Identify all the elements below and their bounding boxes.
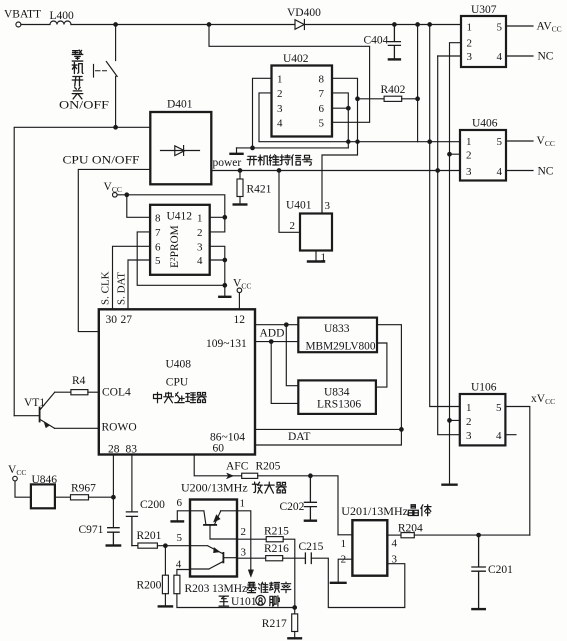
wire U200 pin6 to ground	[177, 511, 190, 520]
svg-text:COL4: COL4	[102, 386, 131, 398]
ground below R217	[288, 637, 301, 639]
wire U307 pin2 ground column	[450, 43, 462, 484]
svg-text:R216: R216	[264, 543, 289, 555]
wire S.CLK U412 pin6 to CPU pin30	[113, 246, 151, 309]
svg-text:U106: U106	[471, 382, 497, 394]
svg-text:3: 3	[241, 546, 247, 558]
node top-D401-branch junction	[207, 23, 211, 27]
node R402 column junction	[416, 23, 420, 27]
resistor R205	[242, 473, 338, 535]
transistor Q1 inside U200	[190, 511, 237, 539]
resistor R204	[387, 533, 530, 538]
wire U402 pin1 loop	[253, 78, 272, 148]
svg-text:E2PROM: E2PROM	[168, 225, 181, 268]
resistor R215	[237, 537, 295, 608]
wire U200 pin4 to R203	[177, 570, 190, 576]
resistor R402	[358, 96, 418, 101]
svg-text:R215: R215	[264, 526, 289, 538]
wire U307 pin3 column to U106 pin3	[438, 56, 460, 435]
svg-text:1: 1	[240, 497, 246, 509]
node ADD lower junction	[269, 340, 273, 344]
terminal Vcc for U846	[13, 476, 31, 497]
wire Vcc to U412 pins 8,1,2	[117, 195, 225, 232]
svg-text:R217: R217	[262, 618, 287, 630]
svg-text:ADD: ADD	[260, 328, 285, 340]
wire power line	[211, 170, 460, 172]
wire U201 pin2 to ground	[338, 559, 352, 581]
svg-text:6: 6	[155, 241, 161, 253]
wire AFC from CPU pin60	[194, 455, 242, 476]
svg-text:ROWO: ROWO	[102, 421, 137, 433]
svg-text:D401: D401	[167, 99, 193, 111]
svg-text:R201: R201	[137, 530, 162, 542]
svg-text:6: 6	[177, 497, 183, 509]
svg-text:4: 4	[392, 538, 398, 550]
node U406 pin2 junction	[448, 152, 452, 156]
node top-switch junction	[114, 23, 118, 27]
node U401 pin2 junction	[277, 169, 281, 173]
arrow 13MHz output	[248, 570, 253, 577]
svg-text:AVCC: AVCC	[537, 21, 562, 34]
label 至	[219, 596, 229, 606]
svg-text:5: 5	[497, 21, 503, 33]
svg-text:1: 1	[466, 136, 472, 148]
svg-text:5: 5	[497, 136, 503, 148]
node pin28 junction	[112, 495, 116, 499]
svg-text:3: 3	[467, 51, 473, 63]
svg-text:C201: C201	[488, 564, 513, 576]
svg-text:30: 30	[106, 314, 118, 326]
svg-text:R402: R402	[381, 84, 406, 96]
svg-text:R203: R203	[185, 583, 210, 595]
svg-text:8: 8	[319, 73, 325, 85]
svg-text:4: 4	[496, 430, 502, 442]
node Vcc branch junction	[125, 193, 129, 197]
U401 pin digits	[290, 200, 331, 264]
svg-text:2: 2	[197, 227, 203, 239]
node U406 line dot	[428, 140, 432, 144]
node C404 junction	[393, 23, 397, 27]
terminal Vcc for CPU pin12	[237, 288, 242, 309]
svg-text:U833: U833	[324, 323, 350, 335]
svg-text:U200/13MHz: U200/13MHz	[181, 481, 248, 495]
svg-text:2: 2	[341, 554, 347, 566]
diode VD400	[295, 20, 304, 30]
svg-text:VD400: VD400	[287, 7, 321, 19]
wire hold-signal ground line	[237, 147, 349, 149]
svg-text:U307: U307	[471, 4, 497, 16]
svg-text:4: 4	[497, 51, 503, 63]
diode block D401	[150, 112, 211, 184]
node U412 pin1 junction	[223, 216, 227, 220]
capacitor C215	[305, 553, 404, 608]
switch S400 整机开关	[94, 25, 118, 128]
svg-text:3: 3	[466, 166, 472, 178]
svg-text:VCC: VCC	[233, 277, 251, 290]
IC U307	[438, 16, 533, 67]
svg-text:DAT: DAT	[288, 431, 310, 443]
IC U106	[450, 394, 530, 535]
svg-text:U401: U401	[286, 200, 312, 212]
svg-text:1: 1	[467, 21, 473, 33]
wire CPU ON/OFF net	[78, 169, 150, 331]
wire U201 pin1	[338, 534, 352, 536]
wire U412 pin7 ground loop	[137, 232, 225, 285]
wire U833 to U834 right loop	[376, 343, 387, 387]
resistor R217	[292, 608, 298, 638]
node C202 junction	[309, 474, 313, 478]
svg-text:CPU: CPU	[166, 376, 189, 388]
CPU U408	[99, 309, 255, 454]
IC U401	[279, 171, 332, 261]
label 晶体	[408, 505, 418, 516]
node pin7 line junction	[223, 284, 227, 288]
label circled 8	[256, 596, 265, 606]
svg-text:R967: R967	[71, 482, 96, 494]
ground below R421	[234, 203, 247, 205]
svg-text:2: 2	[467, 37, 473, 49]
svg-text:2: 2	[466, 416, 472, 428]
svg-text:U408: U408	[166, 358, 192, 370]
svg-text:R4: R4	[72, 375, 86, 387]
U106 pin digits	[466, 402, 502, 442]
node DAT junction	[400, 428, 404, 432]
svg-text:7: 7	[155, 227, 161, 239]
label 整机开关 vertical	[72, 50, 83, 61]
arrow AFC direction	[227, 473, 234, 479]
wire ADD to U834	[271, 325, 298, 404]
svg-text:6: 6	[319, 103, 325, 115]
svg-text:R205: R205	[256, 460, 281, 472]
IC U833 flash memory	[298, 318, 377, 353]
svg-text:1: 1	[341, 538, 347, 550]
node R201 junction	[164, 544, 168, 548]
svg-text:4: 4	[176, 558, 182, 570]
wire CPU pin83 column	[131, 455, 133, 512]
IC U201 crystal	[352, 520, 387, 576]
capacitor C201	[472, 535, 485, 609]
node R402 right junction	[416, 97, 420, 101]
svg-text:27: 27	[121, 314, 133, 326]
chinese glyphs	[72, 50, 431, 606]
svg-text:NC: NC	[538, 165, 554, 177]
svg-text:VT1: VT1	[24, 397, 45, 409]
IC U834 sram	[298, 380, 376, 414]
U402 pin digits	[277, 73, 325, 129]
ground at U201 pin2	[331, 582, 346, 584]
svg-text:L400: L400	[50, 10, 75, 22]
terminal VBATT	[16, 22, 21, 27]
svg-text:2: 2	[277, 88, 283, 100]
resistor R421	[237, 171, 243, 204]
wire S.DAT U412 pin5 to CPU pin27	[128, 260, 150, 309]
svg-text:5: 5	[177, 532, 183, 544]
label 脚	[270, 596, 280, 606]
svg-text:VCC: VCC	[8, 464, 26, 477]
transistor VT1	[14, 392, 54, 428]
node R421 junction	[238, 169, 242, 173]
inductor L400	[21, 21, 71, 24]
svg-text:R421: R421	[247, 184, 272, 196]
svg-text:5: 5	[496, 402, 502, 414]
svg-text:S. DAT: S. DAT	[115, 272, 127, 305]
svg-text:VBATT: VBATT	[4, 9, 41, 21]
U201 pin digits	[341, 538, 398, 566]
svg-text:VCC: VCC	[537, 135, 555, 148]
node pin8-column crossing dot	[356, 140, 359, 143]
svg-text:28: 28	[108, 443, 120, 455]
resistor R200	[162, 546, 168, 606]
svg-text:CPU ON/OFF: CPU ON/OFF	[63, 155, 140, 167]
ground below U401	[308, 260, 324, 262]
svg-text:3: 3	[466, 430, 472, 442]
wire U402 pin2 loop to U406 pin1	[259, 93, 460, 142]
svg-text:8: 8	[155, 212, 161, 224]
svg-text:AFC: AFC	[226, 460, 249, 472]
svg-text:U834: U834	[324, 387, 350, 399]
U406 pin digits	[466, 136, 503, 178]
svg-text:U402: U402	[283, 53, 309, 65]
capacitor C202	[304, 476, 316, 521]
svg-text:1: 1	[197, 212, 203, 224]
wire U412 pins3-4 ground column	[210, 246, 225, 295]
label 基准频率	[247, 582, 257, 592]
svg-text:4: 4	[497, 166, 503, 178]
IC U846	[31, 484, 55, 508]
svg-text:3: 3	[325, 200, 331, 212]
node U412 pin4 junction	[223, 258, 227, 262]
wire U402 pin5 to rail	[209, 25, 370, 123]
IC U200 amplifier	[190, 500, 237, 577]
wire ADD bus upper	[255, 324, 298, 326]
U200 pin digits	[176, 497, 247, 571]
ground of shield column	[443, 484, 457, 486]
transistor Q2 inside U200	[190, 546, 237, 569]
svg-text:U201/13MHz: U201/13MHz	[341, 504, 408, 518]
svg-text:R204: R204	[398, 522, 423, 534]
wire AVcc column to U106 pin1	[430, 25, 460, 407]
resistor R216	[237, 556, 305, 561]
svg-text:3: 3	[392, 554, 398, 566]
svg-text:12: 12	[234, 314, 246, 326]
wire R402 column	[417, 25, 419, 142]
node U106 column junction	[428, 23, 432, 27]
svg-text:5: 5	[155, 255, 161, 267]
svg-text:power: power	[213, 157, 242, 169]
node C201 junction	[477, 533, 481, 537]
svg-text:VCC: VCC	[104, 181, 122, 194]
ground below R200	[159, 605, 172, 607]
svg-text:4: 4	[277, 117, 283, 129]
capacitor C971	[107, 528, 120, 546]
ground at U200 pin6	[172, 520, 183, 522]
svg-text:7: 7	[319, 88, 325, 100]
svg-text:U406: U406	[472, 118, 498, 130]
ground on hold-signal line	[231, 148, 243, 154]
svg-text:3: 3	[277, 103, 283, 115]
node U402 pin1 loop junction	[251, 146, 255, 150]
svg-text:C215: C215	[299, 541, 324, 553]
svg-text:U846: U846	[32, 474, 58, 486]
svg-text:C202: C202	[280, 501, 305, 513]
capacitor C404	[388, 25, 400, 60]
wire ADD bus lower	[255, 341, 298, 343]
resistor R201	[138, 543, 190, 548]
terminal Vcc for U412	[113, 193, 118, 198]
svg-text:R200: R200	[137, 579, 162, 591]
svg-text:ON/OFF: ON/OFF	[59, 99, 109, 111]
svg-text:C971: C971	[79, 524, 104, 536]
svg-text:C404: C404	[364, 35, 389, 47]
label 中央处理器	[154, 392, 162, 403]
svg-text:U412: U412	[167, 210, 193, 222]
svg-text:1: 1	[277, 73, 283, 85]
node U406 pin3 junction	[436, 169, 440, 173]
node U402 pin6 junction	[347, 106, 351, 110]
svg-text:109~131: 109~131	[206, 338, 247, 350]
wire U200 pin1 to 13MHz output	[237, 511, 251, 570]
IC U402	[272, 66, 333, 137]
node switch-bottom junction	[114, 126, 118, 130]
wire ROWO	[55, 427, 99, 429]
svg-text:60: 60	[213, 442, 225, 454]
svg-text:83: 83	[126, 443, 138, 455]
ground below U412 column	[219, 296, 230, 298]
node U106 pin2 junction	[448, 419, 452, 423]
wire U833 right loop to DAT	[255, 325, 401, 445]
svg-text:U101: U101	[231, 596, 257, 608]
node ADD upper junction	[285, 323, 289, 327]
svg-text:2: 2	[241, 526, 247, 538]
capacitor C200	[126, 512, 137, 546]
svg-text:5: 5	[319, 117, 325, 129]
wire top Vcc rail	[71, 24, 461, 26]
svg-text:3: 3	[197, 241, 203, 253]
svg-text:LRS1306: LRS1306	[317, 398, 361, 410]
svg-text:4: 4	[197, 255, 203, 267]
svg-text:2: 2	[290, 220, 296, 232]
IC U412 E2PROM	[150, 205, 210, 275]
label 开机维持信号	[247, 156, 257, 165]
svg-text:S. CLK: S. CLK	[100, 271, 112, 305]
svg-text:1: 1	[321, 252, 327, 264]
wire data bus 86~104	[255, 428, 401, 430]
resistor R203	[174, 575, 295, 607]
wire switch to D401 and to VT1 base column	[14, 127, 150, 415]
wire U402 pins7-6 ground branch	[332, 93, 348, 148]
IC U406	[460, 130, 533, 181]
svg-text:1: 1	[466, 402, 472, 414]
wire CPU pin28 column	[112, 455, 114, 527]
U412 pin digits	[155, 212, 203, 267]
svg-text:xVCC: xVCC	[531, 393, 555, 406]
svg-text:13MHz: 13MHz	[212, 583, 247, 595]
wire U402 pin8 to U401 pin3	[322, 78, 358, 213]
label 放大器	[252, 482, 262, 493]
resistor R967	[55, 495, 114, 500]
svg-text:2: 2	[466, 150, 472, 162]
svg-text:C200: C200	[140, 499, 165, 511]
node R402 left junction	[356, 97, 360, 101]
U307 pin digits	[467, 21, 503, 63]
node pin7-column crossing dot	[347, 140, 350, 143]
resistor R4	[55, 390, 99, 395]
svg-text:NC: NC	[538, 51, 554, 63]
node R217 junction	[293, 606, 297, 610]
svg-text:MBM29LV800: MBM29LV800	[306, 341, 376, 353]
